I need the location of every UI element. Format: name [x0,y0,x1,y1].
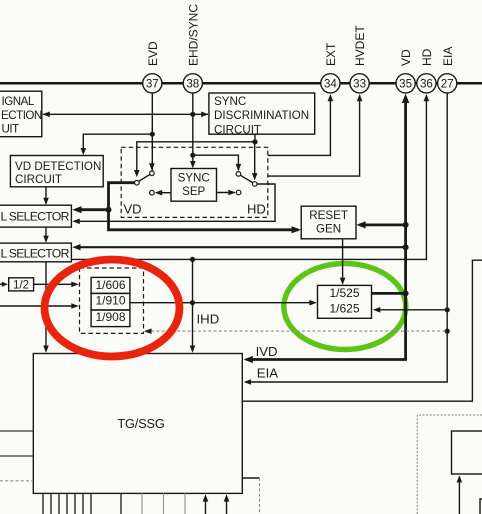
svg-text:L SELECTOR: L SELECTOR [1,210,70,224]
svg-text:CIRCUIT: CIRCUIT [214,123,261,136]
box SYNC SEP [171,169,217,202]
wire EIA into 1/525 right [375,309,447,311]
wire EXT from dashed box to pin 34 [268,96,331,156]
svg-text:UIT: UIT [2,123,20,136]
arrowhead into L selector 2 right [72,244,80,250]
arrowhead into SYNC SEP top [190,161,196,168]
wire L selector 1 to L selector 2 [45,227,47,241]
wire right edge net to TG/SSG [242,260,482,401]
junction dot EHD at sync sep [190,153,195,158]
wire TG/SSG left line 1 [0,430,33,432]
arrowhead into sync discrimination box [201,112,209,118]
box 1/908 [91,310,130,327]
junction dot bold at L selector 1 [106,207,112,213]
svg-text:SYNC: SYNC [214,95,246,108]
junction dot bold at RESET GEN line [403,222,409,228]
arrowhead into 1/525 box top [340,278,346,285]
arrowhead bold into RESET GEN right [356,221,365,228]
arrowhead into TG/SSG top (x=46) [43,346,49,353]
arrowhead up into pin 36 [424,94,430,101]
svg-text:IGNAL: IGNAL [2,95,35,108]
svg-text:SYNC: SYNC [178,172,210,185]
pin 38 circle [183,74,202,93]
junction dot divider output at IHD [190,300,195,305]
svg-text:1/2: 1/2 [13,278,29,291]
svg-text:DISCRIMINATION: DISCRIMINATION [214,109,309,122]
svg-text:1/525: 1/525 [329,286,359,300]
arrowhead EIA into TG/SSG right [244,379,252,385]
svg-text:1/910: 1/910 [95,293,125,307]
svg-text:GEN: GEN [316,223,341,236]
junction dot EHD at detection line [190,112,195,117]
junction dot bold at 1/525 output [403,290,409,296]
wire HD output from right switch [76,184,276,221]
wire HD horizontal to pin 36 [71,96,426,260]
arrowhead into VD detection top [81,148,87,155]
wire input to 1/2 [0,283,6,285]
junction dot control line [252,139,257,144]
box 1/525 1/625 [318,285,372,318]
box SIGNAL DETECTION CIRCUIT (cut at left edge) [0,91,42,137]
arrowhead HD into L selector 1 [72,219,80,225]
arrowhead bold into L selector 1 [72,206,81,213]
svg-text:EIA: EIA [441,47,455,66]
wire bold 1/525 output [372,292,406,295]
green ellipse highlight [284,264,406,350]
arrowhead into 1/525 right edge [373,307,381,313]
svg-text:38: 38 [186,77,199,90]
box 1/2 [9,278,34,291]
wire VD detection to L selector 1 [45,187,47,204]
arrowhead into left switch pole [134,170,140,177]
wire control to right switch pole [254,142,256,179]
TG/SSG bottom pins gray [142,493,185,514]
arrowhead into divider box (from 1/2) [71,282,79,288]
junction dot EIA at 1/525 line [445,307,450,312]
svg-text:VD: VD [124,202,142,217]
wire TG/SSG bottom input arrow 2 [226,496,228,514]
TG/SSG bottom pins dark cluster [43,493,121,514]
svg-text:HD: HD [420,48,434,66]
pin 33 circle [350,74,369,93]
right switch upper contact [236,172,241,177]
wire bold into RESET GEN right [360,223,406,226]
arrowhead sync sep left output [155,190,163,196]
svg-text:EIA: EIA [257,366,278,381]
box SYNC DISCRIMINATION CIRCUIT [209,93,315,134]
box bottom right (cut at right edge) [452,431,482,474]
left switch pole contact [135,180,140,185]
text SIGNAL DETECTION CIRCUIT fragments [1,95,42,136]
svg-text:EVD: EVD [146,41,160,66]
wire control horizontal [137,142,255,176]
red ellipse highlight [45,260,180,357]
wire EVD vertical from pin 37 [151,92,153,171]
pin 35 circle [396,74,415,93]
box corner fragment bottom right [480,499,482,514]
wire TG/SSG left gray dashed line [0,480,33,482]
wire SYNC SEP right output [217,192,235,194]
wire RESET GEN output down [342,239,344,283]
svg-text:CIRCUIT: CIRCUIT [15,173,62,186]
arrowhead into 1/525 left edge [309,300,317,306]
box VD DETECTION CIRCUIT [10,156,103,187]
svg-text:34: 34 [324,77,337,90]
svg-text:VD: VD [399,49,413,66]
wire divider output to 1/525 [130,302,314,304]
arrowhead into signal detection box [42,112,50,118]
arrowhead up into pin 34 [328,94,334,101]
wire detection line between boxes [43,113,208,115]
box L SELECTOR 1 (cut at left edge) [0,205,71,227]
wire SYNC SEP left output [156,192,171,194]
box TG/SSG [33,354,242,494]
box 1/606 [91,277,130,293]
wire TG/SSG right to gray vertical [242,477,259,479]
arrowhead bold into RESET GEN left [292,226,301,233]
svg-text:L SELECTOR: L SELECTOR [1,246,70,260]
wire IHD vertical [192,259,194,351]
svg-text:37: 37 [146,77,159,90]
svg-text:1/606: 1/606 [95,278,125,292]
pin 36 circle [417,74,436,93]
left switch blade [138,174,151,182]
wire L selector line to TG/SSG [45,262,47,351]
svg-text:ECTION: ECTION [1,109,42,122]
svg-text:VD DETECTION: VD DETECTION [15,160,101,173]
pin 37 circle [143,74,162,93]
svg-text:EXT: EXT [324,42,338,66]
dashed selector box [121,147,268,217]
wire gray dashed return to divider box [146,330,447,332]
svg-text:HD: HD [247,202,266,217]
wire top bus [0,82,482,85]
arrowhead bold IVD into TG/SSG [244,356,253,363]
junction dot EVD branch [150,132,155,137]
svg-text:SEP: SEP [182,185,205,198]
box 1/910 [91,293,130,310]
svg-text:RESET: RESET [309,209,348,222]
left switch lower contact [150,190,155,195]
right switch lower contact [236,190,241,195]
wire sync discrimination output to switches [254,134,256,142]
arrowhead into L selector 1 top [43,198,49,205]
svg-text:TG/SSG: TG/SSG [117,416,164,431]
wire HVDET from dashed box to pin 33 [268,96,360,177]
gray block boundary bottom right [417,415,482,514]
svg-text:35: 35 [399,77,412,90]
svg-text:IVD: IVD [256,344,278,359]
wire second divider input [0,305,76,307]
box L SELECTOR 2 (cut at left edge) [0,243,71,262]
arrowhead into right switch contact [236,164,242,171]
wire HD pin line (already above) / wire EIA pin vertical [247,92,447,382]
right switch blade [240,175,254,183]
wire gray dashed vertical below [259,478,261,514]
arrowhead into right switch pole [252,173,258,180]
arrowhead sync sep right output [228,190,236,196]
box RESET GEN [301,206,356,239]
junction dot bold VD at 247 [403,244,409,250]
junction dot EIA at gray line [445,329,450,334]
right switch pole contact [252,182,257,187]
arrowhead up into pin 33 [357,94,363,101]
svg-text:EHD/SYNC: EHD/SYNC [187,4,201,66]
wire arrow up into bottom-right box [458,477,460,514]
svg-text:27: 27 [441,77,454,90]
svg-text:33: 33 [353,77,366,90]
arrowhead into L selector 2 top [43,236,49,243]
svg-text:IHD: IHD [197,312,220,327]
svg-text:1/908: 1/908 [95,310,125,324]
wire branch to VD detection [83,134,152,153]
svg-text:HVDET: HVDET [353,25,367,66]
pin 27 circle [438,74,457,93]
wire 1/2 output [34,283,76,285]
dashed divider box [80,268,144,333]
arrowhead into 1/2 [2,282,8,287]
wire EHD/SYNC vertical from pin 38 [192,92,194,167]
wire bold from VD net to L selector 2 [76,246,406,248]
wire bold VD output from left switch [109,183,299,230]
arrowhead into divider dashed box right [144,328,152,334]
arrowhead into divider box (second) [71,303,79,309]
pin 34 circle [321,74,340,93]
arrowhead IHD into TG/SSG top [190,346,196,353]
svg-text:1/625: 1/625 [329,301,359,315]
wire EHD to right switch contact [193,155,239,169]
junction dot IHD tee [190,257,195,262]
wire bold VD vertical to pin 35 [247,97,406,360]
wire TG/SSG bottom input arrow 1 [205,496,207,514]
arrowhead bold up into pin 35 [402,94,410,103]
wire TG/SSG left line 2 [0,455,33,457]
arrowhead EVD into switch contact [149,163,155,170]
left switch upper contact [150,171,155,176]
wire bold arrow into L selector 1 [76,208,109,211]
svg-text:36: 36 [420,77,433,90]
